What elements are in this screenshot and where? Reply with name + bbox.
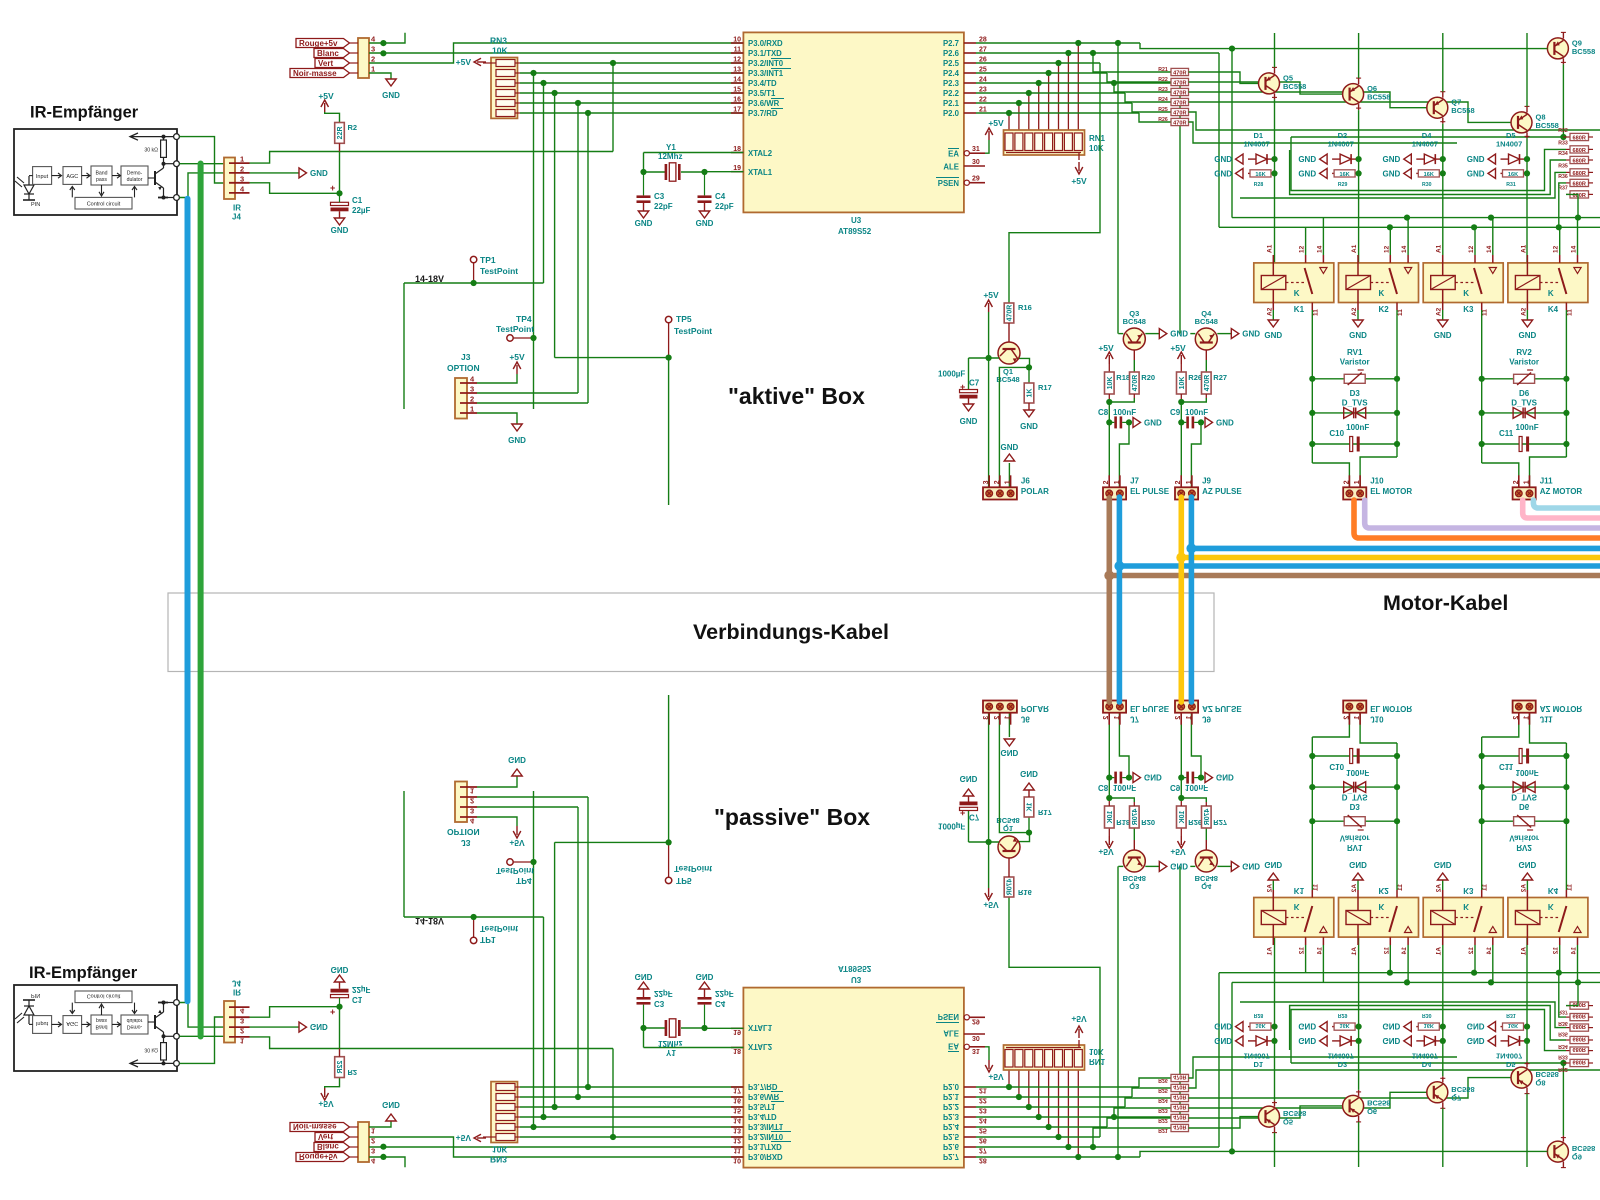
- IC U3 AT89S52: [743, 32, 964, 212]
- svg-text:K4: K4: [1548, 305, 1559, 314]
- +5V symbol above R2: [324, 103, 326, 112]
- junction P2.3 at RN1: [1036, 80, 1042, 86]
- RN1 resistor 6: [1055, 133, 1063, 151]
- wire Q4 feed column: [1179, 83, 1181, 334]
- cable yellow AZ PULSE: [1179, 497, 1185, 702]
- junction P2.3 r3: [1111, 80, 1117, 86]
- relay K2 body: [1339, 263, 1419, 303]
- wire K4 pin14 to rail: [1577, 218, 1579, 255]
- junction D6 right: [1563, 410, 1569, 416]
- svg-text:A2: A2: [1436, 307, 1443, 316]
- wire P2.6 row: [976, 52, 1219, 54]
- svg-text:680R: 680R: [1573, 158, 1586, 164]
- connector J11 AZ MOTOR (screw terminal): [1518, 475, 1520, 489]
- IR receiver module block diagram (top): [14, 129, 177, 215]
- wire IR mid terminal to J4 pin1: [179, 163, 224, 165]
- wire Noir pin1 to GND: [369, 73, 391, 79]
- relay K1 pin A1: [1272, 255, 1274, 276]
- svg-text:Control circuit: Control circuit: [87, 202, 121, 208]
- RN1 pull stub P2.6: [1067, 53, 1069, 133]
- wire R20 to node: [1109, 398, 1134, 402]
- junction 14 rail: [1575, 215, 1581, 221]
- junction Q9/R32/row: [1560, 134, 1566, 140]
- relay K4 pin A2: [1526, 290, 1528, 311]
- svg-text:Noir-masse: Noir-masse: [293, 69, 337, 78]
- capacitor C9 100nF: [1186, 416, 1189, 428]
- wire RN3 row to MCU P3.2: [520, 62, 743, 64]
- junction R26 node: [1178, 399, 1184, 405]
- svg-text:EL MOTOR: EL MOTOR: [1370, 487, 1412, 496]
- wire XTAL1 row: [705, 171, 744, 173]
- R18 bottom lead: [1108, 394, 1110, 402]
- GND below C1: [334, 218, 344, 225]
- svg-text:GND: GND: [1001, 443, 1019, 452]
- transistor Q1 BC548: [998, 342, 1020, 364]
- wire R33 staircase: [1291, 137, 1566, 191]
- R17 bottom lead: [1028, 403, 1030, 410]
- svg-text:R32: R32: [1558, 128, 1568, 134]
- GND flag Q3 emitter: [1159, 329, 1167, 339]
- svg-text:BC558: BC558: [1451, 106, 1474, 115]
- svg-text:A1: A1: [1436, 244, 1443, 253]
- U3 pin 26 P2.5: [964, 62, 976, 64]
- svg-text:K1: K1: [1294, 305, 1305, 314]
- U3 pin 15 P3.5/T1: [731, 92, 743, 94]
- svg-text:GND: GND: [1170, 330, 1188, 339]
- svg-text:3: 3: [983, 480, 990, 484]
- svg-text:P2.2: P2.2: [943, 89, 960, 98]
- J3 pin 1 stub: [460, 412, 477, 414]
- U3 pin 22 P2.1: [964, 102, 976, 104]
- wire r4 feed: [1125, 93, 1171, 102]
- wire P3.7 column down to J3 row: [587, 113, 589, 403]
- wire r6 feed: [1139, 113, 1171, 122]
- relay K4 coil: [1515, 276, 1540, 290]
- svg-text:K3: K3: [1463, 305, 1474, 314]
- relay K2 pin A2: [1357, 290, 1359, 311]
- capacitor C3 22pF: [643, 172, 645, 195]
- wire K2 pin14 to rail: [1407, 218, 1409, 255]
- RN3 resistor 4: [496, 90, 515, 97]
- svg-text:22pF: 22pF: [715, 202, 734, 211]
- svg-text:J7: J7: [1130, 476, 1139, 485]
- svg-text:P3.2/INT0: P3.2/INT0: [748, 59, 784, 68]
- IR block: Control circuit box: [75, 197, 132, 209]
- svg-text:TestPoint: TestPoint: [480, 266, 518, 276]
- svg-text:BC558: BC558: [1536, 121, 1559, 130]
- wire +5V rail down to J6 pin3: [988, 312, 990, 487]
- svg-text:470R: 470R: [1173, 90, 1186, 96]
- svg-text:3: 3: [240, 174, 244, 183]
- svg-text:+5V: +5V: [509, 352, 525, 362]
- svg-text:GND: GND: [1519, 331, 1537, 340]
- resistor R18 10K: [1105, 372, 1115, 394]
- svg-text:K2: K2: [1379, 305, 1390, 314]
- RN1 pull stub P2.2: [1028, 93, 1030, 133]
- GND flag above J6 pin1: [1004, 454, 1014, 461]
- resistor R25 470R: [1171, 108, 1189, 115]
- wire R26 long row: [1189, 122, 1458, 143]
- svg-text:14: 14: [733, 77, 741, 84]
- wire P3.2 column down to J4 net: [612, 63, 614, 152]
- junction 12 rail: [1556, 224, 1562, 230]
- svg-text:Motor-Kabel: Motor-Kabel: [1383, 591, 1508, 615]
- wire crystal right lead: [681, 171, 705, 173]
- relay K3 pin 14: [1492, 255, 1494, 263]
- relay K3 pin A2: [1442, 290, 1444, 311]
- svg-text:A2: A2: [1351, 307, 1358, 316]
- svg-text:680R: 680R: [1573, 181, 1586, 187]
- svg-text:GND: GND: [696, 219, 714, 228]
- wire PNP emitter top stub x=1358.6: [1358, 33, 1360, 78]
- svg-text:GND: GND: [1349, 331, 1367, 340]
- wire J4 pin3 to C1 node: [250, 183, 340, 194]
- svg-text:D3: D3: [1350, 389, 1361, 398]
- svg-text:J6: J6: [1021, 476, 1030, 485]
- wire +5V to R2 top: [325, 112, 340, 123]
- cable blue AZ PULSE: [1189, 497, 1195, 702]
- wire K2 pin11 down: [1396, 310, 1398, 457]
- wire PNP emitter top stub x=1527: [1526, 33, 1528, 106]
- Verbindungs-Kabel box: [168, 593, 1214, 672]
- wire node down to C8: [1108, 402, 1110, 422]
- RN1 pull stub P2.5: [1058, 63, 1060, 133]
- svg-text:A2: A2: [1520, 307, 1527, 316]
- U3 pin 17 P3.7/RD: [731, 112, 743, 114]
- svg-text:P3.7/RD: P3.7/RD: [748, 109, 778, 118]
- R2 bottom lead: [339, 143, 341, 151]
- wire driver column D2: [1358, 110, 1360, 263]
- wire J11 pin1 feed: [1530, 457, 1567, 487]
- U3 pin 30 ALE: [964, 165, 985, 167]
- wire J3 pin2 long row: [477, 402, 588, 404]
- cable blue horizontal upper: [1191, 546, 1600, 552]
- svg-text:R2: R2: [348, 123, 358, 132]
- wire RV2 row: [1482, 378, 1567, 380]
- svg-text:12: 12: [1468, 245, 1475, 253]
- svg-text:C10: C10: [1329, 429, 1344, 438]
- svg-text:GND: GND: [635, 219, 653, 228]
- junction R31: [1524, 170, 1530, 176]
- wire RN3 row to MCU P3.7: [520, 112, 743, 114]
- svg-text:R23: R23: [1158, 87, 1168, 93]
- svg-text:R24: R24: [1158, 97, 1168, 103]
- svg-text:R21: R21: [1158, 67, 1168, 73]
- wire P3.4 column down to 14-18V: [543, 83, 545, 283]
- svg-text:R26: R26: [1188, 373, 1202, 382]
- wire R32 feed row: [1291, 136, 1563, 138]
- junction P2.1 at RN1: [1016, 100, 1022, 106]
- svg-text:1000µF: 1000µF: [938, 370, 965, 379]
- svg-text:AGC: AGC: [66, 174, 78, 180]
- resistor R26 470R: [1171, 118, 1189, 125]
- wire Q3 feed column: [1117, 43, 1119, 334]
- U3 pin 25 P2.4: [964, 72, 976, 74]
- svg-text:2: 2: [1343, 480, 1350, 484]
- svg-text:10: 10: [733, 37, 741, 44]
- connector J4 IR (4-pin): [224, 158, 235, 200]
- svg-text:Input: Input: [36, 174, 49, 180]
- svg-text:1: 1: [240, 155, 244, 164]
- wire Q1 emitter: [1019, 358, 1030, 367]
- wire Q3 collector: [1118, 333, 1123, 335]
- svg-text:J10: J10: [1370, 476, 1384, 485]
- wire R23 to Q7 base: [1189, 92, 1427, 108]
- resistor R27 470R: [1202, 372, 1212, 394]
- D2 junction lead: [1351, 158, 1359, 160]
- U3 pin 11 P3.1/TXD: [731, 52, 743, 54]
- wire J4 pin1 to P3.2 net: [250, 152, 614, 164]
- transistor Q4 BC548: [1195, 328, 1217, 350]
- svg-text:R31: R31: [1506, 182, 1516, 188]
- svg-text:dulator: dulator: [127, 177, 143, 183]
- svg-text:Varistor: Varistor: [1509, 358, 1539, 367]
- junction pin3: [380, 50, 386, 56]
- svg-text:RN1: RN1: [1089, 134, 1106, 143]
- svg-text:A1: A1: [1520, 244, 1527, 253]
- +5V at J3: [516, 365, 518, 374]
- cable junction brown: [1104, 571, 1114, 581]
- wire J3 pin3 long row: [477, 392, 578, 394]
- wire RN3 row to MCU P3.4: [520, 82, 743, 84]
- svg-text:PSEN: PSEN: [938, 179, 960, 188]
- wire R36 stub net: [1559, 183, 1566, 227]
- wire Q4 collector: [1190, 333, 1195, 335]
- wire P2.1 row: [976, 102, 1132, 104]
- relay K2 pin 12: [1389, 255, 1391, 263]
- junction C11 left: [1479, 441, 1485, 447]
- junction C9 right: [1198, 419, 1204, 425]
- GND below K2: [1353, 320, 1363, 327]
- svg-text:K: K: [1548, 289, 1554, 298]
- svg-text:P3.3/INT1: P3.3/INT1: [748, 69, 784, 78]
- R20 bottom lead: [1133, 394, 1135, 398]
- connector (Rouge/Blanc/Vert/Noir 4-pin): [358, 38, 369, 78]
- svg-text:C4: C4: [715, 192, 726, 201]
- svg-text:1: 1: [470, 405, 474, 414]
- cable junction blue up: [1186, 543, 1196, 553]
- svg-text:2: 2: [371, 55, 375, 64]
- TVS diode D3: [1344, 408, 1354, 419]
- wire P3.5 column down to TP5 row: [554, 93, 556, 358]
- resistor R32 680R: [1570, 133, 1589, 140]
- wire P3.3 column down: [533, 73, 535, 409]
- relay K1 switch: [1305, 268, 1313, 294]
- R16 base lead: [1008, 323, 1010, 343]
- GND below K4: [1522, 320, 1532, 327]
- wire r2 feed: [1107, 73, 1171, 82]
- GND flag Q4 emitter: [1231, 329, 1239, 339]
- IR block: right terminals: [174, 134, 180, 140]
- svg-text:30: 30: [972, 159, 980, 166]
- junction R28: [1271, 170, 1277, 176]
- svg-text:TestPoint: TestPoint: [496, 324, 534, 334]
- IR block: Demodulator box: [121, 166, 148, 185]
- relay K4 pin A1: [1526, 255, 1528, 276]
- svg-text:R37: R37: [1558, 185, 1568, 191]
- svg-text:12: 12: [1383, 245, 1390, 253]
- svg-text:1: 1: [1114, 480, 1121, 484]
- wire J10 pin1 feed: [1360, 457, 1397, 487]
- relay K3 pin 12: [1474, 255, 1476, 263]
- transistor Q8 BC558: [1511, 112, 1532, 133]
- junction D6 left: [1479, 410, 1485, 416]
- wire J4 pin2 to GND flag: [250, 172, 300, 174]
- IR block: photodiode PIN: [24, 185, 34, 194]
- svg-text:+: +: [330, 183, 335, 193]
- wire K3 pin12 to rail: [1474, 227, 1476, 255]
- svg-text:2: 2: [994, 480, 1001, 484]
- svg-text:IR-Empfänger: IR-Empfänger: [29, 964, 138, 982]
- junction C10 left: [1309, 441, 1315, 447]
- resistor R34 right stub: [1589, 159, 1594, 161]
- svg-text:RV2: RV2: [1516, 348, 1532, 357]
- svg-text:R26: R26: [1158, 117, 1168, 123]
- svg-text:D6: D6: [1519, 389, 1530, 398]
- junction P2.6 r1: [1090, 50, 1096, 56]
- junction P3.3 column: [530, 70, 536, 76]
- svg-text:2: 2: [1513, 480, 1520, 484]
- wire Q1 emitter to J6 pin2: [999, 367, 1029, 487]
- cable brown EL PULSE: [1107, 498, 1113, 702]
- junction P2.5 at RN1: [1055, 60, 1061, 66]
- junction R29: [1356, 170, 1362, 176]
- svg-text:GND: GND: [1383, 169, 1401, 178]
- wire K4 pin11 down: [1565, 310, 1567, 457]
- wire C11 row: [1482, 443, 1567, 445]
- svg-text:680R: 680R: [1573, 135, 1586, 141]
- junction Q1 emitter: [1026, 364, 1032, 370]
- GND flag at D1: [1236, 154, 1244, 164]
- R18 top lead: [1108, 364, 1110, 372]
- +5V at R26: [1180, 355, 1182, 364]
- R30 lead: [1416, 172, 1418, 174]
- junction P2.2 at RN1: [1026, 90, 1032, 96]
- svg-text:+5V: +5V: [318, 91, 334, 101]
- GND flag at R31: [1488, 168, 1496, 178]
- svg-text:GND: GND: [1467, 169, 1485, 178]
- svg-text:P3.1/TXD: P3.1/TXD: [748, 49, 782, 58]
- svg-text:12: 12: [1299, 245, 1306, 253]
- relay K3 pin A1: [1442, 255, 1444, 276]
- svg-text:P3.0/RXD: P3.0/RXD: [748, 39, 783, 48]
- transistor Q5 BC558: [1259, 73, 1280, 94]
- U3 pin 28 P2.7: [964, 42, 976, 44]
- relay K2 pin 11: [1396, 303, 1398, 311]
- RN1 resistor 8: [1074, 133, 1082, 151]
- resistor R2 22R: [335, 123, 345, 144]
- cable lightblue AZ MOTOR: [1533, 500, 1600, 508]
- relay K2 switch: [1389, 268, 1397, 294]
- wire TP5 row: [555, 357, 669, 359]
- svg-text:PIN: PIN: [31, 202, 40, 208]
- svg-text:1N4007: 1N4007: [1412, 140, 1438, 149]
- svg-text:R36: R36: [1558, 174, 1568, 180]
- relay K2 pin A1: [1357, 255, 1359, 276]
- wire R35 staircase: [1240, 172, 1566, 198]
- junction crystal left: [640, 169, 646, 175]
- svg-text:TP4: TP4: [516, 314, 532, 324]
- net label flag Vert: [315, 59, 350, 68]
- svg-text:C1: C1: [352, 196, 363, 205]
- svg-text:C7: C7: [969, 379, 980, 388]
- svg-text:GND: GND: [1383, 155, 1401, 164]
- wire D6 row: [1482, 412, 1567, 414]
- D4 junction lead: [1435, 158, 1443, 160]
- RN3 resistor 3: [496, 80, 515, 87]
- U3 pin 24 P2.3: [964, 82, 976, 84]
- svg-text:R35: R35: [1558, 163, 1568, 169]
- junction 12 rail: [1387, 224, 1393, 230]
- wire PNP emitter top stub x=1442.8: [1442, 33, 1444, 92]
- relay K4 body: [1508, 263, 1588, 303]
- U3 pin 12 P3.2/INT0: [731, 62, 743, 64]
- svg-text:AT89S52: AT89S52: [838, 227, 872, 236]
- svg-text:R17: R17: [1038, 383, 1052, 392]
- svg-text:XTAL2: XTAL2: [748, 149, 773, 158]
- wire Q4 base: [1205, 360, 1207, 372]
- svg-text:EA: EA: [948, 150, 959, 159]
- junction 12 rail: [1471, 224, 1477, 230]
- svg-text:14: 14: [1571, 245, 1578, 253]
- svg-text:16K: 16K: [1339, 172, 1349, 178]
- svg-text:1: 1: [1005, 480, 1012, 484]
- wire r1 feed: [1093, 53, 1171, 72]
- cable orange EL MOTOR: [1354, 500, 1600, 538]
- wire RV1 row: [1312, 378, 1397, 380]
- wire r3 feed: [1114, 83, 1171, 92]
- wire rail-12 riser: [1218, 53, 1220, 227]
- svg-text:GND: GND: [310, 169, 328, 178]
- wire crystal left lead: [644, 171, 667, 173]
- wire 14-18V left drop: [403, 283, 405, 409]
- svg-text:+5V: +5V: [456, 57, 472, 67]
- svg-text:A2: A2: [1266, 307, 1273, 316]
- +5V at R18: [1108, 355, 1110, 364]
- resistor R21 470R: [1171, 68, 1189, 75]
- wire TP5 column down: [668, 358, 670, 505]
- svg-text:GND: GND: [1216, 418, 1234, 427]
- resistor R28 16K: [1250, 170, 1271, 177]
- svg-text:10K: 10K: [1089, 144, 1104, 153]
- RN3 resistor 3 right stub: [515, 82, 520, 84]
- wire driver column D1: [1274, 99, 1276, 263]
- wire K2 pin12 to rail: [1389, 227, 1391, 255]
- IR block: top feedback arrow: [130, 133, 176, 140]
- svg-text:GND: GND: [382, 91, 400, 100]
- J3 pin 4 stub: [460, 382, 477, 384]
- wire Q9 base row: [1546, 47, 1549, 49]
- GND flag at J4 pin2: [299, 168, 307, 178]
- svg-text:C9: C9: [1170, 408, 1181, 417]
- svg-text:11: 11: [1312, 309, 1319, 316]
- svg-text:AZ MOTOR: AZ MOTOR: [1540, 487, 1583, 496]
- svg-text:P3.5/T1: P3.5/T1: [748, 89, 776, 98]
- svg-text:+5V: +5V: [1071, 176, 1087, 186]
- svg-text:14: 14: [1316, 245, 1323, 253]
- svg-text:+5V: +5V: [988, 118, 1004, 128]
- junction TP1: [471, 280, 477, 286]
- svg-text:IR-Empfänger: IR-Empfänger: [30, 104, 139, 122]
- GND flag C8: [1133, 417, 1141, 427]
- junction P3.7 column: [585, 110, 591, 116]
- relay K1 pin 12: [1305, 255, 1307, 263]
- svg-text:22R: 22R: [337, 126, 344, 139]
- transistor Q3 BC548: [1123, 328, 1145, 350]
- svg-text:GND: GND: [1214, 155, 1232, 164]
- relay K4 switch: [1559, 268, 1567, 294]
- cable brown horizontal: [1109, 573, 1600, 579]
